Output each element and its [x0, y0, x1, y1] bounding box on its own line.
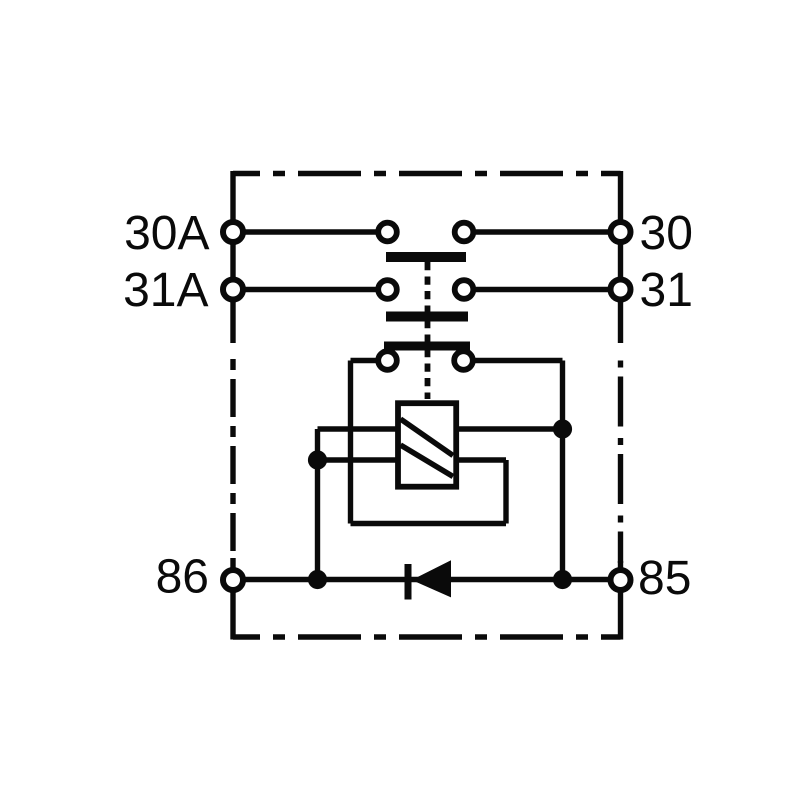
relay coil stripe lower — [401, 445, 454, 477]
terminal 31 — [611, 280, 631, 300]
relay enclosure border right middle (dash-dot) — [618, 352, 623, 563]
switch bridge bar row1 — [386, 252, 466, 262]
terminal 30A — [223, 222, 243, 242]
relay enclosure border left lower (solid) — [230, 558, 235, 640]
wire left drop vertical x=350.5 — [348, 361, 353, 524]
relay enclosure border left middle (dash-dot) — [230, 350, 235, 560]
junction dot bottom rail right — [553, 570, 572, 589]
wire coil lower terminal horizontal y=460 — [318, 457, 507, 462]
wire contact row3 right to right drop — [474, 358, 563, 363]
contact circle row1 right — [455, 223, 474, 242]
svg-text:31A: 31A — [123, 264, 208, 317]
relay enclosure border right upper (solid) — [618, 171, 623, 343]
svg-text:30: 30 — [640, 207, 693, 260]
relay enclosure border bottom (dash-dot) — [233, 634, 621, 639]
wire coil lower loop bottom — [351, 521, 507, 526]
relay enclosure border right lower (solid) — [618, 561, 623, 640]
wire contact row2 right to terminal 31 — [476, 287, 608, 292]
wire terminal 31A to contact row2 left — [245, 287, 378, 292]
switch bridge bar row2 — [386, 312, 468, 322]
wire bottom rail 86 to 85 — [244, 577, 608, 582]
wire right drop vertical x=562.5 — [560, 361, 565, 580]
wire left column vertical x=317.5 — [315, 429, 320, 580]
contact circle row1 left — [378, 223, 397, 242]
wire coil upper terminal horizontal y=429 — [318, 426, 563, 431]
wire contact row1 right to terminal 30 — [476, 229, 608, 234]
relay coil stripe upper — [401, 419, 454, 456]
wire terminal 30A to contact row1 left — [245, 229, 378, 234]
switch bridge bar row3 — [384, 342, 470, 351]
contact circle row2 right — [455, 280, 474, 299]
svg-text:30A: 30A — [124, 207, 209, 260]
terminal 30 — [611, 222, 631, 242]
terminal 31A — [223, 280, 243, 300]
wire coil lower loop right vertical — [503, 460, 508, 524]
contact circle row3 right — [454, 351, 473, 370]
svg-text:86: 86 — [156, 551, 209, 604]
diode V1 triangle — [412, 560, 451, 597]
relay enclosure border top (dash-dot) — [233, 171, 621, 176]
terminal 85 — [611, 570, 631, 590]
contact circle row2 left — [378, 280, 397, 299]
svg-text:85: 85 — [638, 552, 691, 605]
relay coil K1 body — [398, 403, 456, 487]
diode V1 cathode bar — [405, 564, 412, 600]
terminal 86 — [223, 570, 243, 590]
contact circle row3 left — [378, 351, 397, 370]
svg-text:31: 31 — [640, 264, 693, 317]
wire contact row3 left to left drop — [351, 358, 378, 363]
junction dot node coil lower / left column — [308, 450, 327, 469]
armature linkage dashed line — [425, 262, 431, 399]
junction dot bottom rail left — [308, 570, 327, 589]
relay enclosure border left upper (solid) — [230, 171, 235, 343]
junction dot node coil upper / right drop — [553, 419, 572, 438]
